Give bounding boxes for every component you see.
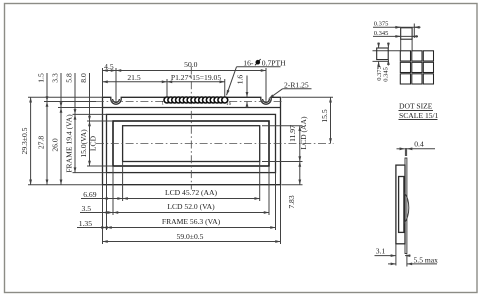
side view: PCB board edge [405,158,407,254]
dimension 0.375 horizontal (dot pitch) [373,26,420,28]
dimension 5.8 (top) and FRAME 19.4(VA) column [74,73,76,114]
dimension 50.0 (notch center to notch center) [116,70,266,72]
svg-text:3.3: 3.3 [51,73,60,83]
svg-text:0.4: 0.4 [414,139,424,148]
dimension 0.345 horizontal (dot size) [373,35,418,37]
svg-text:LCD 45.72 (AA): LCD 45.72 (AA) [165,188,218,197]
svg-text:5.5 max: 5.5 max [414,256,439,265]
svg-text:6.69: 6.69 [83,190,96,199]
svg-text:1.5: 1.5 [37,73,46,83]
3.3 internal line across module [103,107,281,109]
extension lines bottom (AA, VA, frame, module edges) [122,162,124,202]
extension of centerline to left dim column [44,101,96,103]
dimension 11.97 LCD (AA) vertical [299,126,301,162]
svg-text:P1.27*15=19.05: P1.27*15=19.05 [171,73,221,82]
LCD module outer outline (front view) with corner notches [103,97,281,184]
svg-text:1: 1 [161,101,164,107]
extension line module top to 15.5 dim [282,96,334,98]
dimension 7.83 vertical [299,162,301,185]
svg-text:0.345: 0.345 [383,67,390,82]
dimension P1.27*15=19.05 (pin pitch) [167,81,225,83]
extension lines bottom of side view [395,245,397,266]
extension module top to left [28,96,103,98]
detached dot above (for horizontal dims) [401,28,412,39]
notch hole inner rims R1.25 [113,99,120,102]
svg-text:4.5: 4.5 [104,62,114,71]
dimension 1.5 (top) and 27.8 column [46,73,48,102]
detached dot at left (for vertical dims) [377,48,389,60]
svg-text:7.83: 7.83 [287,195,296,208]
extension line module bottom right [282,184,303,186]
svg-text:8.0: 8.0 [79,73,88,83]
extension lines from top dot down to grid [400,40,402,51]
LCD active area rectangle 45.72 x 11.97 [123,126,260,162]
extension line pin 1 center [166,79,168,97]
16 connector pin holes [164,97,228,103]
dimension LCD 45.72 (AA) [123,198,260,200]
svg-text:26.0: 26.0 [51,138,60,151]
dimension 0.375 vertical [378,43,380,49]
extension module bottom to left [28,184,103,186]
side view: PCB extension up for 0.4 dim [404,148,406,156]
LCD viewing area rectangle 52.0 x 15.0 [113,121,269,166]
svg-text:16-: 16- [243,58,254,67]
svg-text:27.8: 27.8 [37,136,46,149]
svg-text:21.5: 21.5 [127,73,140,82]
side view: LCD glass profile [399,177,404,233]
svg-text:5.8: 5.8 [65,73,74,83]
dimension LCD 52.0 (VA) [113,212,269,214]
svg-text:29.3±0.5: 29.3±0.5 [20,127,29,154]
svg-text:2-R1.25: 2-R1.25 [284,80,309,89]
horizontal centerline of LCD [96,143,334,145]
side view: frame profile [396,165,405,244]
vertical centerline of module [190,67,192,190]
dimension 4.5 (module edge to notch center) [103,70,117,72]
dimension 3.3 (top) and 26.0 column [60,73,62,108]
svg-text:16: 16 [226,101,232,107]
extension line pin 16 center [224,79,226,97]
svg-text:FRAME 56.3 (VA): FRAME 56.3 (VA) [162,217,221,226]
svg-text:1.6: 1.6 [236,75,245,85]
extension line module left edge (top) [102,68,104,97]
dimension 0.4 (PCB thickness) [397,148,405,150]
dimension 8.0 (top) and 15.0(VA) LCD column [89,73,91,121]
svg-text:SCALE 15/1: SCALE 15/1 [399,111,439,120]
svg-text:15.5: 15.5 [320,109,329,122]
dimension 21.5 (module edge to pin1) [103,81,168,83]
dimension 6.69 (left offset of AA) [81,198,103,200]
extension of 3.3 line to left dim column [58,107,103,109]
side view: bent tab arc [404,193,409,224]
svg-text:1.35: 1.35 [79,219,92,228]
svg-text:59.0±0.5: 59.0±0.5 [177,232,204,241]
extension lines for 11.97 dim (AA top/bottom) [262,125,303,127]
extension lines around left dot [373,50,401,52]
dot matrix 3x3 grid [400,51,433,84]
dimension 29.3±0.5 column [30,97,32,184]
dimension 3.5 (left offset of VA) [80,212,103,214]
extension line left notch center [115,68,117,101]
dimension 5.5 max overall thickness [388,263,396,265]
svg-text:DOT SIZE: DOT SIZE [399,102,433,111]
svg-text:0.345: 0.345 [374,30,389,37]
dimension 59.0±0.5 overall width [103,241,281,243]
dimension 0.345 vertical [387,43,389,49]
svg-text:15.0(VA): 15.0(VA) [79,129,88,158]
svg-text:LCD: LCD [89,135,98,151]
dimension 1.6 (module top to pin centerline) [246,76,248,98]
svg-text:FRAME 19.4 (VA): FRAME 19.4 (VA) [65,114,74,173]
dimension 15.5 (module top to LCD centerline) [330,97,332,143]
dimension 1.35 (left offset of frame) [77,227,103,229]
svg-text:LCD (AA): LCD (AA) [299,116,308,150]
svg-text:LCD 52.0 (VA): LCD 52.0 (VA) [167,202,215,211]
pin hole centerline (dash-dot) y=101.5 [96,101,283,103]
extension VA bottom to left col [87,165,113,167]
svg-text:50.0: 50.0 [184,60,197,69]
extension frame bottom to left col [73,172,107,174]
svg-text:11.97: 11.97 [288,125,297,142]
svg-text:3.5: 3.5 [82,204,92,213]
svg-text:0.375: 0.375 [374,21,389,28]
svg-text:3.1: 3.1 [376,246,386,255]
dimension 3.1 (frame front to PCB front) [375,255,396,257]
svg-text:0.7PTH: 0.7PTH [262,58,286,67]
metal frame rectangle FRAME 56.3 x 19.4 [107,114,276,172]
extension line right notch center [265,68,267,101]
dimension FRAME 56.3 (VA) [107,227,276,229]
extension frame top to left col [73,113,107,115]
extension VA top to left col [87,120,113,122]
